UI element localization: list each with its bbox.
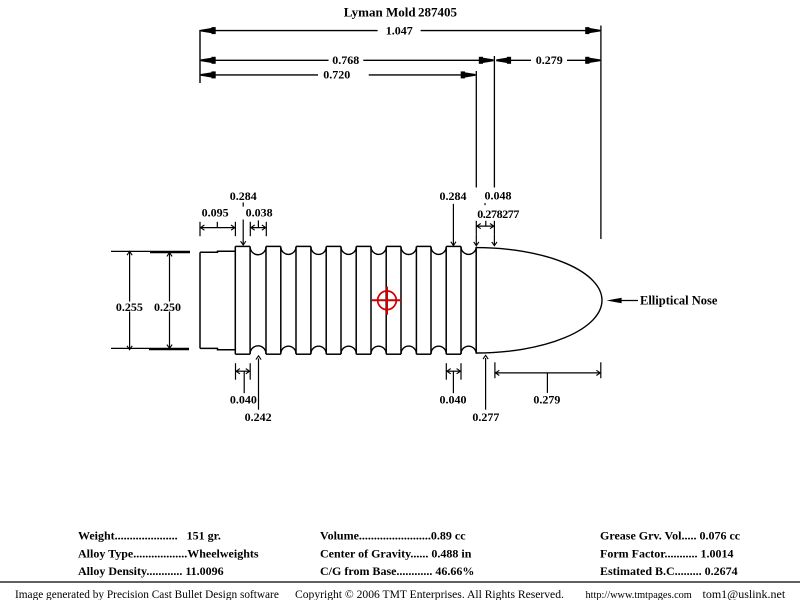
stats column 3 — [600, 529, 741, 579]
driving band 1 — [235, 246, 250, 354]
dimension 0.279 nose length (bottom) — [495, 362, 601, 406]
svg-text:0.279: 0.279 — [533, 393, 560, 407]
svg-text:287405: 287405 — [418, 4, 458, 19]
svg-text:0.284: 0.284 — [230, 189, 257, 203]
dimension 0.250 diameter — [154, 253, 181, 349]
svg-text:http://www.tmtpages.com: http://www.tmtpages.com — [586, 590, 692, 600]
svg-text:0.242: 0.242 — [245, 410, 272, 424]
svg-text:0.095: 0.095 — [202, 206, 229, 220]
leader arrow to x=476 front band edge — [474, 234, 479, 246]
labels 0.278 and 0.277 (overlapping) — [477, 207, 519, 221]
grease groove 1 arcs — [250, 247, 266, 354]
svg-text:0.040: 0.040 — [230, 393, 257, 407]
driving band 4 — [326, 246, 341, 354]
svg-text:Elliptical Nose: Elliptical Nose — [640, 294, 718, 308]
driving band 5 — [356, 246, 371, 354]
label Elliptical Nose with leader arrow — [607, 294, 718, 308]
extension line 0.250 top — [150, 252, 190, 254]
svg-text:0.038: 0.038 — [246, 206, 273, 220]
svg-text:Grease Grv. Vol..... 0.076 cc: Grease Grv. Vol..... 0.076 cc — [600, 529, 741, 543]
svg-text:0.720: 0.720 — [323, 68, 350, 82]
extension line x=494 — [493, 56, 495, 188]
footer separator line — [0, 581, 800, 583]
svg-text:0.250: 0.250 — [154, 300, 181, 314]
stats column 1 — [78, 529, 259, 579]
svg-text:0.284: 0.284 — [440, 189, 467, 203]
svg-text:0.255: 0.255 — [116, 300, 143, 314]
dimension 0.768 — [200, 53, 494, 67]
leader arrow to x=494 — [492, 234, 497, 246]
label 0.048 — [485, 189, 512, 206]
svg-text:0.040: 0.040 — [440, 393, 467, 407]
driving band 2 — [266, 246, 281, 354]
grease groove 6 arcs — [401, 247, 416, 354]
dimension 0.040 band width (left) — [230, 363, 257, 406]
svg-text:Alloy Type..................Wh: Alloy Type..................Wheelweights — [78, 547, 259, 561]
svg-text:Copyright © 2006 TMT Enterpris: Copyright © 2006 TMT Enterprises. All Ri… — [295, 588, 564, 600]
grease groove 7 arcs — [431, 247, 446, 354]
svg-text:1.047: 1.047 — [386, 23, 413, 37]
svg-text:C/G from Base............ 46.6: C/G from Base............ 46.66% — [320, 564, 474, 578]
svg-text:0.048: 0.048 — [485, 189, 512, 203]
centre of gravity marker (red) — [372, 287, 402, 315]
svg-text:0.279: 0.279 — [536, 53, 563, 67]
elliptical nose outline — [476, 248, 602, 353]
grease groove 4 arcs — [341, 247, 356, 354]
driving band 6 — [386, 246, 401, 354]
extension line 0.255 top — [111, 250, 190, 252]
extension line 0.250 bottom — [111, 347, 189, 349]
title: Lyman Mold 287405 — [344, 4, 458, 19]
footer text — [15, 587, 786, 600]
svg-text:Image generated by Precision C: Image generated by Precision Cast Bullet… — [15, 589, 279, 600]
label 0.242 groove diameter with leader arrow — [245, 356, 272, 424]
bullet base outline (heel) — [200, 251, 235, 349]
grease groove 5 arcs — [371, 247, 386, 354]
driving band 3 — [296, 246, 311, 354]
dimension 0.279 nose length top — [496, 53, 601, 67]
stats column 2 — [320, 529, 474, 579]
label 0.284 (front band diameter) with leader arrow — [440, 189, 467, 245]
grease groove 3 arcs — [311, 247, 326, 354]
svg-text:Alloy Density............ 11.0: Alloy Density............ 11.0096 — [78, 564, 224, 578]
svg-text:0.277: 0.277 — [472, 410, 499, 424]
extension line right (nose tip) — [600, 26, 602, 240]
svg-text:Estimated B.C......... 0.2674: Estimated B.C......... 0.2674 — [600, 564, 738, 578]
grease groove 2 arcs — [281, 247, 296, 354]
dimension 0.048 double arrow with ticks — [476, 221, 494, 234]
driving band 8 — [446, 246, 461, 354]
svg-text:tom1@uslink.net: tom1@uslink.net — [703, 587, 786, 600]
svg-text:0.768: 0.768 — [332, 53, 359, 67]
dimension 1.047 overall length — [200, 23, 601, 83]
dimension 0.720 — [200, 68, 476, 82]
svg-text:Weight.....................: Weight..................... 151 gr. — [78, 529, 221, 543]
svg-text:Volume........................: Volume........................0.89 cc — [320, 529, 466, 543]
label 0.277 with leader arrow — [472, 355, 499, 424]
extension line 0.255 bottom — [149, 349, 189, 351]
dimension 0.095 base length — [200, 206, 235, 237]
driving band 7 — [416, 246, 431, 354]
dimension 0.040 band width (front) — [440, 363, 467, 406]
svg-text:Center of Gravity...... 0.488: Center of Gravity...... 0.488 in — [320, 547, 472, 561]
svg-text:Form Factor........... 1.0014: Form Factor........... 1.0014 — [600, 547, 734, 561]
svg-text:Lyman Mold: Lyman Mold — [344, 4, 417, 19]
grease groove 8 arcs — [461, 247, 476, 354]
extension line x=476 — [475, 71, 477, 188]
svg-text:0.278277: 0.278277 — [477, 207, 519, 221]
dimension 0.038 groove width — [246, 206, 273, 237]
dimension 0.255 diameter — [116, 251, 143, 349]
label 0.284 (band diameter) with leader arrow — [230, 189, 257, 245]
